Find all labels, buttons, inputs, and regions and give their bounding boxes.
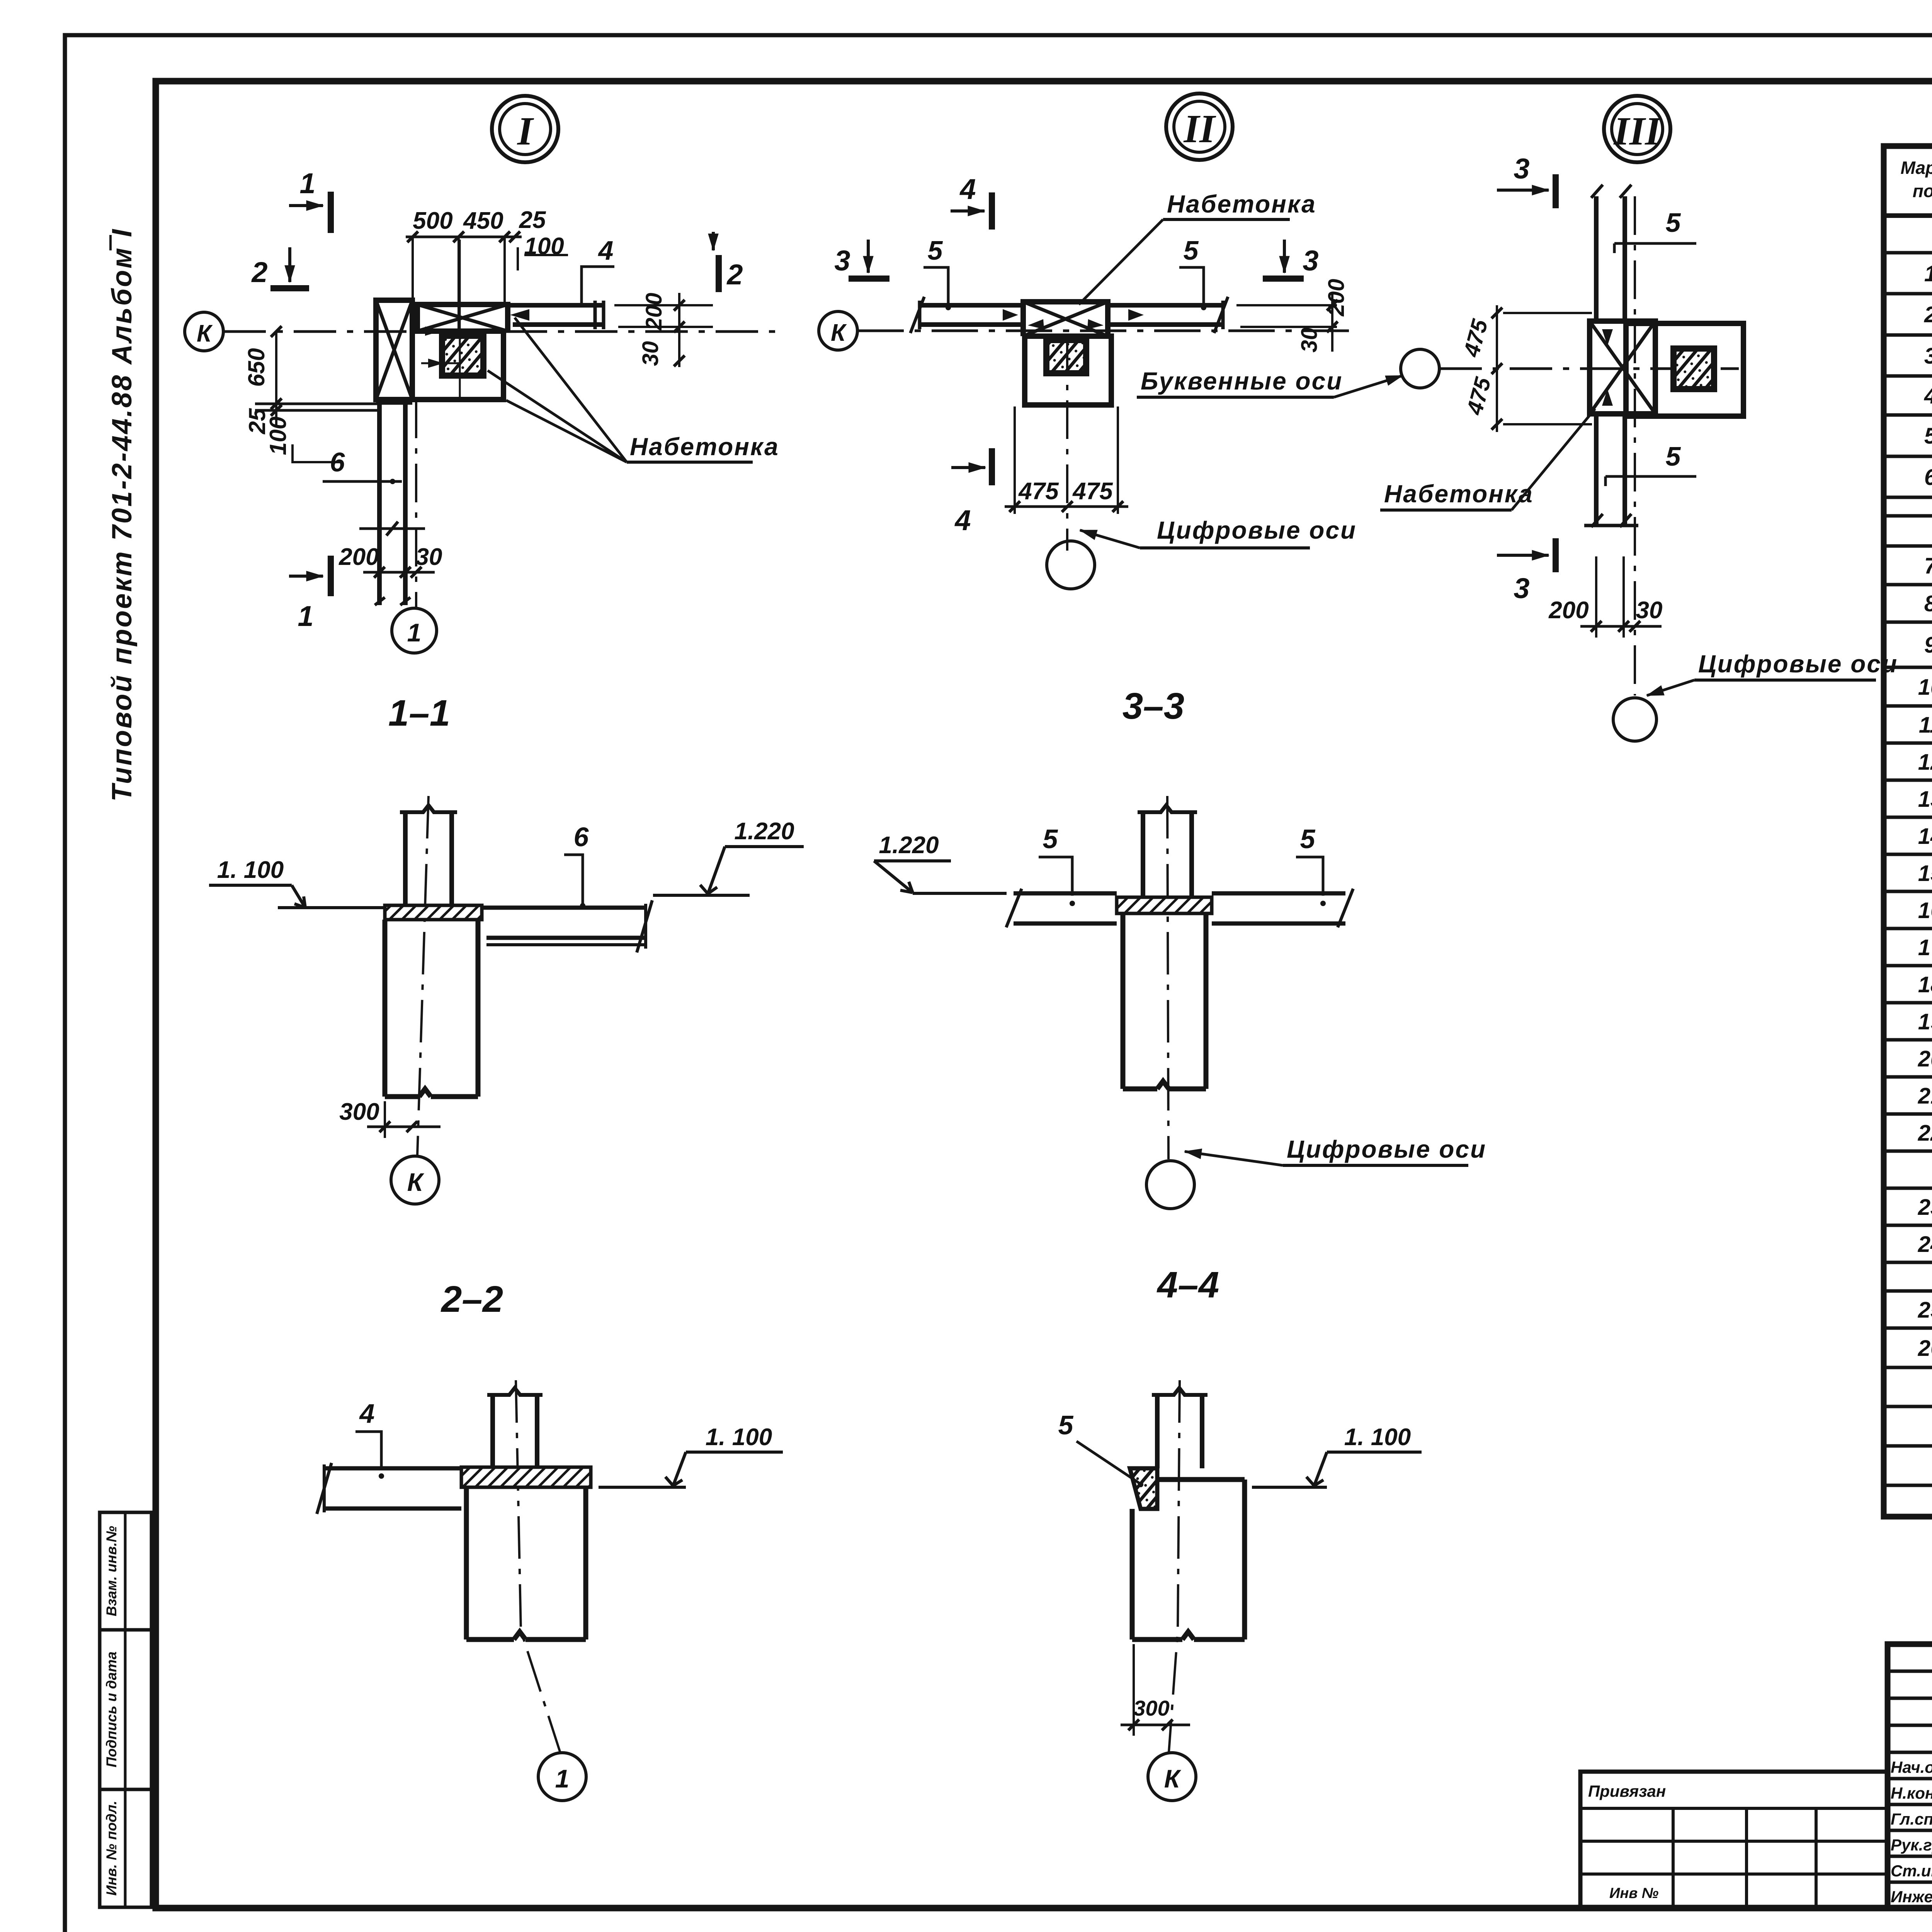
svg-text:26: 26	[1918, 1336, 1932, 1361]
axis K dash-dot (detail II)	[857, 330, 1352, 332]
axis dash-dot horizontal (detail III)	[1439, 367, 1739, 370]
svg-text:475: 475	[1018, 478, 1059, 505]
svg-text:21: 21	[1918, 1083, 1932, 1109]
spec table grid	[1884, 146, 1932, 1517]
plan centerlines	[413, 240, 460, 402]
section mark 2 (left)	[251, 247, 309, 288]
spec row 24: ПРм2	[1918, 1231, 1932, 1257]
letter axis circle (detail III)	[1401, 349, 1439, 388]
section 4-4: foundation body	[1132, 1480, 1245, 1639]
svg-text:30: 30	[1297, 328, 1322, 353]
svg-text:5: 5	[1300, 824, 1316, 854]
plan: foundation square (detail III)	[1626, 323, 1743, 416]
axis circle K (section 1-1)	[391, 1156, 439, 1204]
svg-text:5: 5	[1058, 1410, 1074, 1440]
plan: nabetonka hatched pad (detail II)	[1046, 340, 1086, 373]
section 2-2: column	[487, 1388, 543, 1468]
svg-text:К: К	[831, 320, 847, 346]
svg-text:Набетонка: Набетонка	[630, 433, 779, 461]
spec table header texts	[1901, 158, 1932, 201]
svg-text:Типовой проект 701-2-44.88 Аль: Типовой проект 701-2-44.88 Альбом I	[107, 228, 138, 801]
dim 300 (section 4-4)	[1121, 1644, 1190, 1736]
spec row 2: ФБ6-2	[1924, 301, 1932, 327]
svg-text:14: 14	[1918, 824, 1932, 849]
nabetonka label and leaders (detail I)	[488, 318, 779, 462]
svg-text:1.220: 1.220	[734, 818, 794, 845]
spec row 1: ФБ6-31	[1924, 260, 1932, 286]
plan: beam going down	[375, 403, 412, 605]
svg-text:10: 10	[1918, 675, 1932, 700]
svg-text:200: 200	[1324, 279, 1349, 317]
spec row 11: ФМ5	[1919, 712, 1932, 738]
svg-text:5: 5	[928, 235, 943, 265]
nabetonka label (detail II)	[1079, 190, 1316, 304]
section mark 1 (bottom)	[289, 556, 331, 632]
svg-text:1: 1	[299, 167, 315, 199]
level mark 1.100 (section 4-4)	[1252, 1424, 1422, 1487]
spec row 12: ФМ6	[1918, 749, 1932, 775]
level mark 1.100 (section 2-2)	[599, 1424, 783, 1487]
right dim 200 / 30 (detail II)	[1236, 279, 1349, 353]
svg-text:5: 5	[1043, 824, 1058, 854]
svg-text:1: 1	[407, 618, 422, 647]
label 5 left with leader	[923, 235, 951, 310]
spec row 5: ФБ6-41	[1924, 423, 1932, 449]
axis circle K (section 4-4 bottom)	[1148, 1753, 1196, 1801]
svg-text:18: 18	[1918, 972, 1932, 997]
label 5 left (section 3-3)	[1039, 824, 1075, 906]
signature rows: responsibles	[1891, 1758, 1932, 1906]
svg-text:4: 4	[954, 504, 971, 536]
svg-text:1–1: 1–1	[388, 692, 450, 734]
svg-text:Привязан: Привязан	[1588, 1782, 1666, 1800]
svg-text:1. 100: 1. 100	[706, 1424, 772, 1451]
section mark 3 (left)	[834, 240, 889, 279]
plan: top foundation beam with cross	[417, 304, 508, 331]
svg-text:2: 2	[726, 259, 743, 291]
stamp box Подпись и дата	[100, 1630, 151, 1789]
section 1-1: axis line	[417, 796, 429, 1155]
svg-text:300: 300	[339, 1099, 379, 1125]
svg-text:1. 100: 1. 100	[217, 857, 284, 883]
section 4-4: axis line	[1169, 1380, 1180, 1752]
svg-text:100: 100	[265, 417, 291, 455]
svg-text:5: 5	[1666, 441, 1681, 471]
svg-text:2–2: 2–2	[440, 1279, 503, 1320]
svg-text:15: 15	[1918, 861, 1932, 886]
plan: crossed block (detail III)	[1590, 321, 1655, 414]
spec row 19: ФМ13	[1918, 1009, 1932, 1034]
axis K dash-dot line	[223, 330, 777, 333]
label 4 with leader (beam pos.4)	[582, 235, 614, 304]
spec row 6: ФБ6-42	[1924, 464, 1932, 490]
svg-text:300: 300	[1133, 1696, 1169, 1720]
spec row 26: ФОм2	[1918, 1335, 1932, 1361]
svg-text:Подпись и дата: Подпись и дата	[104, 1651, 119, 1767]
spec row 23: ПРм1	[1918, 1194, 1932, 1220]
svg-text:12: 12	[1918, 750, 1932, 775]
plan: beam going down (detail III)	[1584, 416, 1638, 527]
svg-text:20: 20	[1918, 1046, 1932, 1071]
svg-text:3: 3	[1303, 245, 1318, 277]
label 5 right (section 3-3)	[1296, 824, 1326, 906]
spec row 18: ФМ12	[1918, 971, 1932, 997]
section mark 1 (top)	[289, 167, 331, 233]
spec row 21: ФМ15	[1918, 1083, 1932, 1109]
svg-text:Цифровые оси: Цифровые оси	[1698, 650, 1898, 678]
spec row 22: ФМ16	[1918, 1120, 1932, 1146]
svg-text:13: 13	[1918, 787, 1932, 812]
svg-text:5: 5	[1184, 235, 1199, 265]
section 4-4: nabetonka wedge	[1130, 1468, 1157, 1509]
svg-text:19: 19	[1918, 1009, 1932, 1034]
section 4-4 title	[1156, 1264, 1219, 1306]
label 5 (section 4-4)	[1058, 1410, 1143, 1487]
svg-text:4: 4	[1924, 383, 1932, 408]
section 2-2: foundation body	[466, 1487, 586, 1639]
svg-text:Буквенные оси: Буквенные оси	[1141, 367, 1343, 395]
svg-text:7: 7	[1924, 553, 1932, 578]
svg-text:3: 3	[1514, 153, 1529, 185]
nabetonka label (detail III)	[1380, 409, 1595, 510]
left dim 650 25 100	[243, 326, 381, 462]
label 5 right with leader	[1179, 235, 1206, 310]
spec row 15: ФМ9	[1918, 860, 1932, 886]
svg-text:1. 100: 1. 100	[1344, 1424, 1411, 1451]
svg-text:11: 11	[1919, 713, 1932, 738]
svg-text:8: 8	[1924, 591, 1932, 616]
section mark 4 (top)	[951, 173, 992, 230]
section mark 4 (bottom)	[951, 448, 992, 536]
spec row 4: ФБ6-43	[1924, 383, 1932, 408]
title block outline	[1888, 1644, 1932, 1908]
section 3-3: foundation body	[1123, 913, 1206, 1089]
plan: nabetonka hatched pad	[442, 336, 483, 376]
svg-text:200: 200	[641, 293, 667, 331]
dim 475 475 (detail III left, rotated)	[1459, 305, 1592, 432]
bottom dim 200 30 (detail III)	[1548, 556, 1662, 638]
spec row 20: ФМ14	[1918, 1046, 1932, 1071]
dim 475 475 (detail II bottom)	[1005, 406, 1128, 514]
section 1-1: beam to the right	[482, 900, 652, 952]
section 2-2 title	[440, 1279, 503, 1320]
section 1-1: column	[400, 805, 457, 905]
svg-text:К: К	[1164, 1764, 1182, 1793]
spec row 14: ФМ8	[1918, 823, 1932, 849]
axis circle (detail II bottom)	[1047, 541, 1095, 589]
svg-text:25: 25	[1918, 1298, 1932, 1323]
plan: beam going right	[508, 301, 604, 329]
detail I marker circle	[492, 96, 558, 162]
svg-text:6: 6	[1924, 465, 1932, 490]
svg-text:200: 200	[1548, 597, 1588, 624]
svg-text:3: 3	[834, 245, 850, 277]
axis circle 1 (bottom of detail I)	[392, 608, 437, 653]
svg-text:III: III	[1613, 109, 1662, 153]
svg-text:1: 1	[298, 600, 313, 632]
svg-text:22: 22	[1918, 1121, 1932, 1146]
svg-text:650: 650	[243, 348, 269, 387]
section 2-2: axis line	[516, 1380, 560, 1753]
axis K circle (detail II)	[819, 311, 857, 350]
vertical axis (detail II) dash-dot	[1066, 336, 1068, 551]
axis circle 1 (section 2-2 bottom)	[538, 1753, 586, 1801]
spec row 17: ФМ11	[1918, 934, 1932, 960]
axis K circle	[185, 312, 223, 351]
svg-text:200: 200	[338, 544, 379, 570]
svg-text:30: 30	[416, 544, 442, 570]
svg-text:2: 2	[251, 256, 267, 288]
plan: left foundation beam with cross	[376, 300, 412, 400]
svg-text:5: 5	[1924, 423, 1932, 449]
svg-text:Набетонка: Набетонка	[1384, 480, 1534, 508]
svg-text:Нач.отд.: Нач.отд.	[1891, 1758, 1932, 1776]
svg-text:К: К	[197, 320, 213, 347]
detail III marker circle	[1604, 96, 1670, 162]
label Цифровые оси (detail II)	[1080, 516, 1357, 548]
svg-text:6: 6	[330, 447, 345, 477]
title block signature grid	[1888, 1644, 1932, 1908]
svg-text:Н.контр.: Н.контр.	[1891, 1784, 1932, 1802]
section 3-3: hatched topping	[1117, 897, 1212, 913]
spec row 8: ФМ2	[1924, 590, 1932, 616]
svg-text:3: 3	[1924, 344, 1932, 369]
spec row 9: ФМ3	[1924, 632, 1932, 658]
section 2-2: hatched topping	[461, 1467, 591, 1487]
right dimension 200 / 30 (rotated)	[614, 293, 713, 367]
section 1-1: hatched topping	[385, 905, 482, 920]
svg-text:2: 2	[1924, 302, 1932, 327]
svg-text:17: 17	[1918, 935, 1932, 960]
svg-text:I: I	[517, 109, 534, 153]
plan: beam going up (detail III)	[1591, 185, 1631, 319]
spec row 7: ФМ1	[1924, 553, 1932, 578]
vertical axis dash-dot (detail III)	[1634, 196, 1636, 696]
spec row 25: ФОм1	[1918, 1297, 1932, 1323]
axis circle (detail III bottom)	[1613, 698, 1656, 741]
plan: right beam (detail II)	[1003, 297, 1228, 333]
svg-text:3: 3	[1514, 572, 1529, 604]
svg-text:Марка,: Марка,	[1901, 158, 1932, 178]
svg-text:Инв №: Инв №	[1609, 1885, 1658, 1901]
svg-text:25: 25	[519, 207, 546, 233]
svg-text:Инжен.: Инжен.	[1891, 1888, 1932, 1906]
svg-text:Гл.спец.: Гл.спец.	[1891, 1810, 1932, 1828]
plan: foundation square (detail II)	[1025, 336, 1111, 405]
dim 300 (section 1-1)	[339, 1099, 440, 1138]
spec row 3: ФБ-3	[1924, 343, 1932, 369]
section 3-3: column	[1138, 805, 1197, 901]
svg-text:К: К	[407, 1168, 425, 1196]
label 4 (section 2-2)	[355, 1398, 384, 1479]
svg-text:9: 9	[1924, 633, 1932, 658]
spec row 16: ФМ10	[1918, 897, 1932, 923]
spec row 10: ФМ4	[1918, 674, 1932, 700]
section 3-3: left beam	[1006, 889, 1117, 927]
svg-text:1: 1	[1924, 261, 1932, 286]
svg-text:475: 475	[1072, 478, 1113, 505]
stamp box Инв. № подл.	[100, 1789, 151, 1907]
svg-text:4: 4	[598, 235, 614, 265]
axis circle (section 3-3 bottom)	[1146, 1161, 1194, 1209]
svg-text:поз.: поз.	[1913, 181, 1932, 201]
svg-text:5: 5	[1666, 207, 1681, 238]
section 3-3 title	[1122, 685, 1184, 727]
plan: crossed beam block (detail II)	[1023, 302, 1108, 336]
level mark 1.220 (right of section 1-1)	[653, 818, 804, 895]
level mark 1.100 (section 1-1)	[209, 857, 384, 908]
svg-text:3–3: 3–3	[1122, 685, 1184, 727]
section mark 3 (detail III top)	[1497, 153, 1556, 208]
label Цифровые оси (section 3-3)	[1185, 1135, 1486, 1165]
section mark 3 (right)	[1263, 240, 1319, 279]
tie mark on down beam	[359, 522, 425, 536]
plan: nabetonka hatched pad (detail III)	[1673, 349, 1714, 389]
detail II marker circle	[1166, 94, 1233, 160]
bottom dim 200 30	[338, 544, 442, 587]
privyazan table	[1580, 1772, 1888, 1908]
svg-text:Взам. инв.№: Взам. инв.№	[104, 1526, 119, 1616]
svg-text:Инв. № подл.: Инв. № подл.	[104, 1801, 119, 1896]
svg-text:16: 16	[1918, 898, 1932, 923]
label Буквенные оси	[1137, 367, 1403, 397]
section mark 2 (right)	[713, 232, 743, 292]
svg-text:500: 500	[413, 207, 452, 234]
section 1-1 title	[388, 692, 450, 734]
section 1-1: label 6 leader	[564, 822, 589, 908]
svg-text:450: 450	[463, 207, 503, 234]
svg-text:Цифровые оси: Цифровые оси	[1287, 1135, 1486, 1163]
label 5 (detail III lower)	[1605, 441, 1696, 486]
section 3-3: right beam	[1212, 889, 1353, 927]
svg-text:30: 30	[1636, 597, 1663, 624]
svg-text:II: II	[1183, 107, 1216, 151]
dimension row 500 450 25 100	[406, 207, 568, 338]
section 1-1: foundation body	[385, 920, 478, 1097]
section 2-2: left beam	[317, 1463, 461, 1514]
svg-text:Ст.инж.: Ст.инж.	[1891, 1862, 1932, 1880]
section 4-4: column	[1152, 1388, 1207, 1468]
svg-text:Набетонка: Набетонка	[1167, 190, 1316, 218]
label Цифровые оси (detail III)	[1647, 650, 1898, 696]
svg-text:Рук.гр.: Рук.гр.	[1891, 1836, 1932, 1854]
label 6 with leader	[323, 447, 402, 484]
svg-text:4: 4	[959, 173, 976, 205]
svg-text:1.220: 1.220	[879, 832, 939, 859]
svg-text:6: 6	[574, 822, 589, 852]
plan: foundation outer square	[412, 331, 503, 400]
svg-text:4: 4	[359, 1398, 375, 1429]
svg-text:24: 24	[1918, 1232, 1932, 1257]
svg-text:4–4: 4–4	[1156, 1264, 1219, 1306]
svg-text:23: 23	[1918, 1195, 1932, 1220]
vertical axis 1 dash-dot	[415, 400, 417, 607]
plan: left beam (detail II)	[910, 297, 1023, 333]
left margin vertical text: Типовой проект 701-2-44.88 Альбом I	[107, 228, 138, 801]
label 5 (detail III upper)	[1614, 207, 1696, 253]
svg-text:Цифровые оси: Цифровые оси	[1157, 516, 1357, 544]
section mark 3 (detail III bottom)	[1497, 538, 1556, 604]
svg-text:30: 30	[638, 341, 663, 366]
level mark 1.220 (section 3-3)	[874, 832, 1007, 893]
svg-text:1: 1	[555, 1764, 570, 1793]
section 3-3: axis line	[1167, 796, 1168, 1159]
stamp box Взам. инв.№	[100, 1512, 151, 1630]
spec row 13: ФМ7	[1918, 786, 1932, 812]
